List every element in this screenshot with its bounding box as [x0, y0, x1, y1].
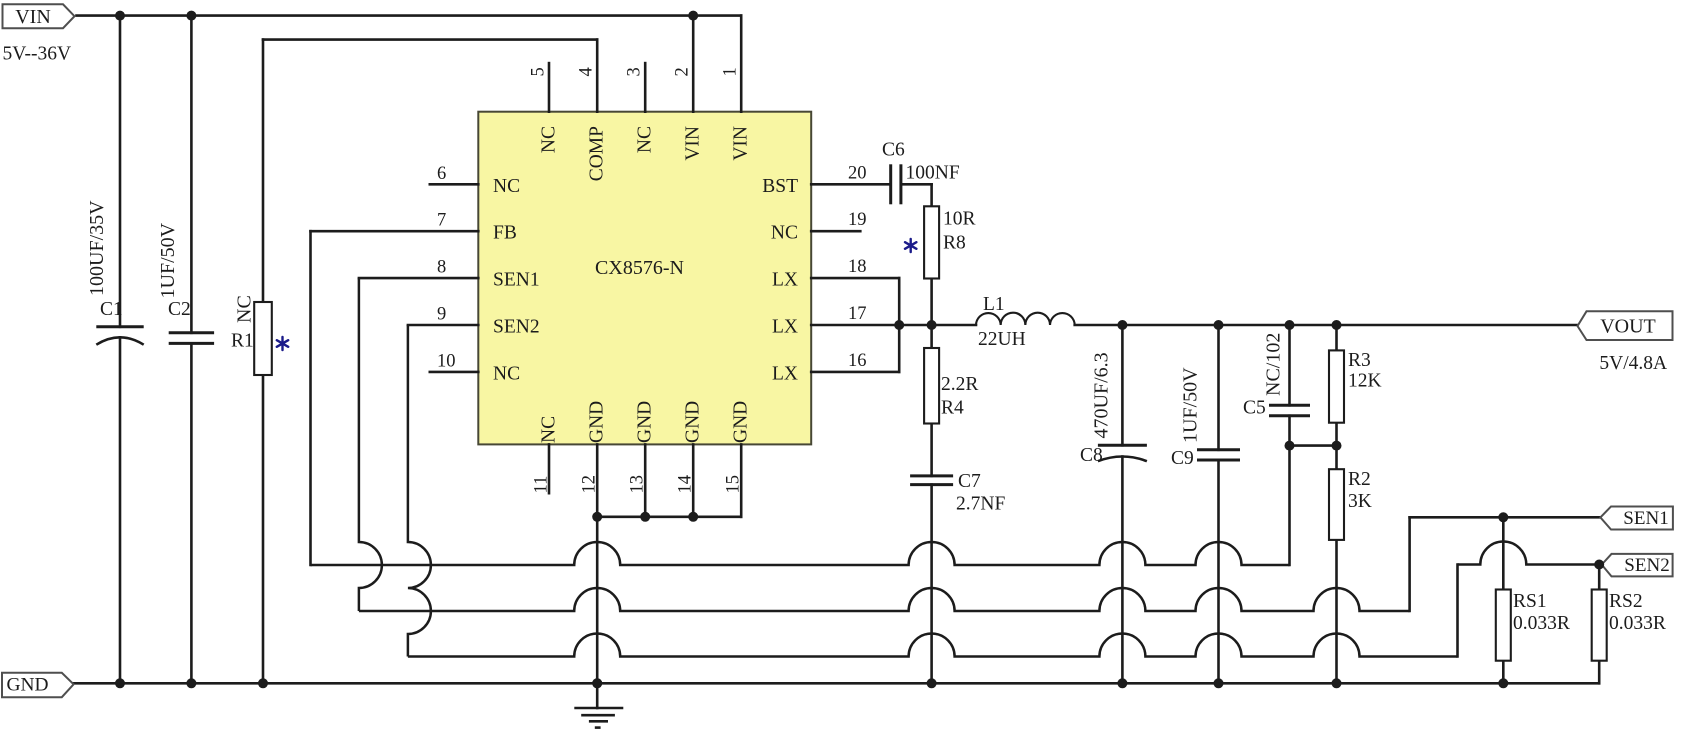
svg-text:SEN1: SEN1	[1623, 508, 1668, 529]
svg-text:SEN2: SEN2	[493, 317, 540, 338]
svg-text:1UF/50V: 1UF/50V	[1180, 367, 1202, 443]
svg-text:R1: R1	[231, 331, 254, 352]
svg-text:GND: GND	[731, 401, 752, 443]
svg-text:NC: NC	[635, 126, 656, 153]
svg-text:VOUT: VOUT	[1600, 315, 1656, 337]
svg-text:100NF: 100NF	[906, 163, 960, 184]
svg-text:1UF/50V: 1UF/50V	[157, 222, 179, 298]
svg-text:10: 10	[437, 351, 456, 371]
svg-text:NC: NC	[234, 295, 256, 323]
svg-text:12: 12	[580, 475, 600, 494]
svg-text:470UF/6.3: 470UF/6.3	[1091, 352, 1113, 438]
svg-text:R2: R2	[1348, 469, 1371, 490]
svg-text:RS1: RS1	[1513, 591, 1547, 612]
svg-text:5: 5	[529, 67, 549, 76]
svg-text:LX: LX	[772, 317, 798, 338]
svg-text:15: 15	[724, 475, 744, 494]
svg-text:GND: GND	[587, 401, 608, 443]
svg-text:GND: GND	[635, 401, 656, 443]
svg-text:3: 3	[625, 67, 645, 76]
svg-text:LX: LX	[772, 270, 798, 291]
svg-text:19: 19	[848, 210, 867, 230]
svg-text:2.2R: 2.2R	[941, 374, 978, 395]
svg-text:8: 8	[437, 258, 446, 278]
svg-text:C6: C6	[882, 140, 905, 161]
svg-text:NC: NC	[493, 176, 520, 197]
svg-text:9: 9	[437, 305, 446, 325]
svg-text:LX: LX	[772, 363, 798, 384]
svg-text:GND: GND	[683, 401, 704, 443]
svg-text:NC: NC	[771, 223, 798, 244]
svg-text:22UH: 22UH	[978, 329, 1026, 350]
svg-text:BST: BST	[762, 176, 798, 197]
svg-text:7: 7	[437, 211, 446, 231]
svg-text:C8: C8	[1080, 445, 1103, 466]
svg-text:VIN: VIN	[15, 6, 51, 28]
svg-text:COMP: COMP	[587, 126, 608, 181]
svg-text:2: 2	[673, 67, 693, 76]
svg-text:C2: C2	[168, 299, 191, 320]
svg-text:0.033R: 0.033R	[1513, 613, 1570, 634]
svg-text:1: 1	[721, 67, 741, 76]
svg-text:18: 18	[848, 257, 867, 277]
svg-text:14: 14	[676, 475, 696, 494]
svg-text:C1: C1	[100, 299, 123, 320]
svg-text:R8: R8	[943, 233, 966, 254]
svg-text:SEN2: SEN2	[1624, 555, 1669, 576]
svg-text:R3: R3	[1348, 350, 1371, 371]
svg-text:FB: FB	[493, 223, 517, 244]
svg-text:C9: C9	[1171, 448, 1194, 469]
svg-text:NC/102: NC/102	[1263, 333, 1285, 396]
svg-text:100UF/35V: 100UF/35V	[86, 200, 108, 296]
svg-text:12K: 12K	[1348, 371, 1382, 392]
svg-text:GND: GND	[6, 675, 48, 696]
svg-text:R4: R4	[941, 398, 964, 419]
svg-text:RS2: RS2	[1609, 591, 1643, 612]
svg-text:C7: C7	[958, 471, 981, 492]
svg-text:VIN: VIN	[731, 126, 752, 161]
svg-text:NC: NC	[539, 126, 560, 153]
svg-text:SEN1: SEN1	[493, 270, 540, 291]
svg-text:17: 17	[848, 304, 867, 324]
svg-text:16: 16	[848, 351, 867, 371]
svg-text:5V/4.8A: 5V/4.8A	[1599, 353, 1667, 374]
svg-text:5V--36V: 5V--36V	[3, 44, 72, 65]
svg-text:L1: L1	[983, 294, 1005, 315]
svg-text:VIN: VIN	[683, 126, 704, 161]
svg-text:NC: NC	[493, 363, 520, 384]
svg-text:6: 6	[437, 164, 446, 184]
svg-text:13: 13	[628, 475, 648, 494]
svg-text:4: 4	[577, 67, 597, 76]
svg-text:20: 20	[848, 163, 867, 183]
svg-text:CX8576-N: CX8576-N	[595, 257, 684, 279]
svg-text:C5: C5	[1243, 398, 1266, 419]
svg-text:2.7NF: 2.7NF	[956, 494, 1005, 515]
svg-text:NC: NC	[539, 416, 560, 443]
svg-text:11: 11	[532, 476, 552, 494]
svg-text:3K: 3K	[1348, 491, 1372, 512]
svg-text:10R: 10R	[943, 209, 976, 230]
svg-text:0.033R: 0.033R	[1609, 613, 1666, 634]
